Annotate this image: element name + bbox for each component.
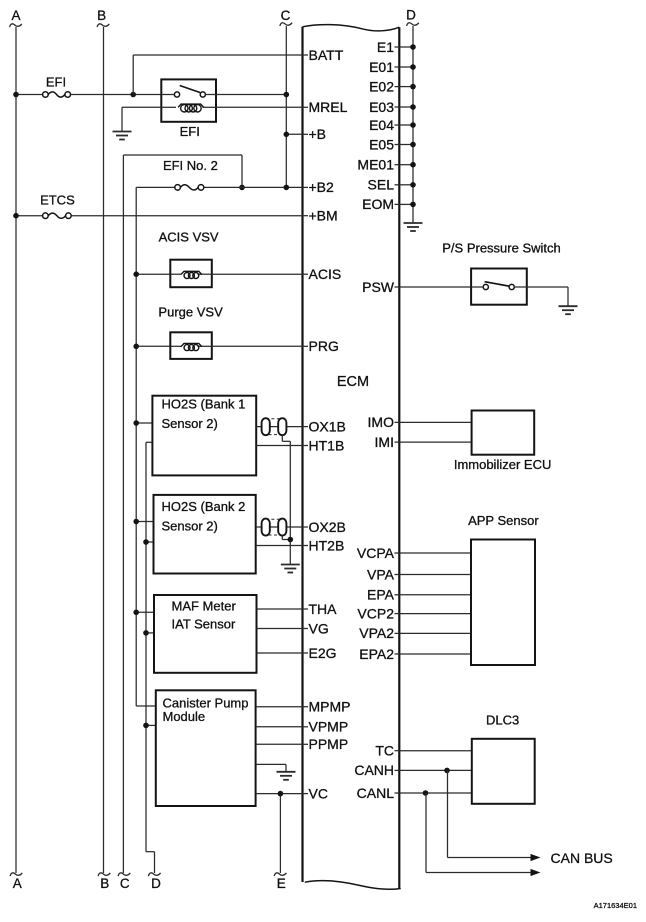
svg-text:+BM: +BM <box>309 208 338 224</box>
ECM pin +BM <box>303 208 338 224</box>
ECM pin E04 <box>369 117 399 133</box>
svg-text:ME01: ME01 <box>357 157 394 173</box>
wire VPA2 to APP sensor <box>399 632 471 634</box>
wire PPMP <box>256 743 303 745</box>
ECM pin E01 <box>369 59 399 75</box>
EFI relay label <box>180 124 200 139</box>
svg-text:ACIS VSV: ACIS VSV <box>159 230 219 245</box>
solenoid valve Purge VSV <box>170 332 212 359</box>
ECM pin VPMP <box>303 719 349 735</box>
relay EFI <box>161 79 216 121</box>
ECM pin OX1B <box>303 418 346 434</box>
ECM pin VC <box>303 785 328 801</box>
wire ETCS fuse to +BM <box>71 215 302 217</box>
svg-text:DLC3: DLC3 <box>486 713 519 728</box>
svg-text:EPA2: EPA2 <box>359 646 394 662</box>
svg-text:VPA: VPA <box>367 566 395 582</box>
svg-text:VPA2: VPA2 <box>359 625 394 641</box>
node C top label <box>281 8 291 23</box>
wire E03 to node D <box>399 104 416 110</box>
wire shield drain bank1 <box>282 435 290 564</box>
ECM pin CANL <box>357 785 400 801</box>
svg-text:HT1B: HT1B <box>309 437 345 453</box>
node B vertical line <box>97 24 110 876</box>
ECM pin VPA <box>367 566 399 582</box>
svg-text:A171634E01: A171634E01 <box>594 901 637 910</box>
wire VG <box>257 628 303 630</box>
wire OX2B <box>256 526 303 528</box>
svg-text:D: D <box>406 8 416 23</box>
wire CANL branch to CAN bus <box>426 793 541 876</box>
EFI fuse label <box>46 74 66 89</box>
wire battery feed on node A to EFI fuse <box>13 92 42 98</box>
ECM pin VCPA <box>357 545 399 561</box>
wire relay coil to ground <box>122 107 161 131</box>
svg-text:E01: E01 <box>369 59 394 75</box>
wire node C to +B <box>284 132 303 138</box>
svg-text:THA: THA <box>309 601 338 617</box>
wire EPA to APP sensor <box>399 594 471 596</box>
svg-text:HT2B: HT2B <box>309 537 345 553</box>
ground at pressure switch <box>559 306 578 314</box>
wire EFI fuse to EFI relay <box>71 92 162 98</box>
svg-text:IAT Sensor: IAT Sensor <box>172 617 236 632</box>
wire IMI <box>399 441 471 443</box>
ECM pin E05 <box>369 136 399 152</box>
ECM pin VPA2 <box>359 625 399 641</box>
ground at canister pump module <box>277 772 296 780</box>
svg-text:IMI: IMI <box>375 434 394 450</box>
supply rail 3 vertical <box>135 187 137 706</box>
svg-text:CANL: CANL <box>357 785 395 801</box>
node A bottom label <box>13 876 22 891</box>
svg-text:BATT: BATT <box>309 47 344 63</box>
ECM pin BATT <box>303 47 344 63</box>
ECM connector box U1 <box>303 25 401 890</box>
svg-text:APP Sensor: APP Sensor <box>468 513 539 528</box>
ECM pin MREL <box>303 99 348 115</box>
wire CANL to DLC3 <box>399 790 472 796</box>
wire rail3 to EFI No.2 fuse <box>136 186 175 188</box>
svg-text:VCP2: VCP2 <box>357 605 394 621</box>
svg-text:EFI: EFI <box>46 74 66 89</box>
shielded connector pair OX2B <box>262 519 287 536</box>
svg-text:PPMP: PPMP <box>309 736 349 752</box>
wire HT1B <box>256 445 302 447</box>
wire VCP2 to APP sensor <box>399 613 471 615</box>
wire CANH branch to CAN bus <box>448 770 541 861</box>
ECM pin HT1B <box>303 437 345 453</box>
wire EOM to node D <box>399 202 416 208</box>
ECM pin MPMP <box>303 699 351 715</box>
ECM pin ACIS <box>303 266 342 282</box>
wire OX1B <box>256 426 302 428</box>
ECM pin PPMP <box>303 736 349 752</box>
node E bottom label <box>277 876 286 891</box>
wire rail3 to ACIS VSV <box>133 271 170 277</box>
node C bottom rail <box>118 155 130 876</box>
svg-text:EFI No. 2: EFI No. 2 <box>163 158 218 173</box>
wire VPA to APP sensor <box>399 574 471 576</box>
ground at shield drain <box>281 565 300 573</box>
CAN BUS label <box>551 850 613 866</box>
wire E01 to node D <box>399 64 416 70</box>
wire rail3 to canister pump module <box>136 705 156 707</box>
svg-text:C: C <box>281 8 291 23</box>
wire THA <box>257 608 303 610</box>
wire E1 to node D <box>399 44 416 50</box>
ECM pin ME01 <box>357 157 399 173</box>
sensor HO2S (Bank 1 Sensor 2) <box>152 396 256 476</box>
fuse ETCS <box>43 213 72 219</box>
svg-text:TC: TC <box>375 743 394 759</box>
svg-text:ETCS: ETCS <box>40 192 75 207</box>
svg-text:E05: E05 <box>369 136 394 152</box>
Purge VSV label <box>158 305 223 320</box>
svg-text:EFI: EFI <box>180 124 200 139</box>
wire Purge VSV to PRG <box>212 345 303 347</box>
wire HT2B <box>256 545 303 547</box>
node A vertical line <box>10 24 23 876</box>
svg-text:E1: E1 <box>377 39 394 55</box>
wire SEL to node D <box>399 182 416 188</box>
connector DLC3 <box>472 739 535 804</box>
node E drop wire from VC <box>274 794 286 877</box>
svg-text:D: D <box>151 876 161 891</box>
ECM pin E02 <box>369 78 399 94</box>
svg-text:IMO: IMO <box>368 414 395 430</box>
document number <box>594 901 637 910</box>
wire VPMP <box>256 726 303 728</box>
ECM pin +B <box>303 126 327 142</box>
svg-text:VG: VG <box>309 620 329 636</box>
svg-text:P/S Pressure Switch: P/S Pressure Switch <box>442 240 561 255</box>
ECM pin E03 <box>369 99 399 115</box>
svg-text:E03: E03 <box>369 99 394 115</box>
wire E02 to node D <box>399 84 416 90</box>
svg-text:E02: E02 <box>369 78 394 94</box>
sensor HO2S (Bank 2 Sensor 2) <box>154 495 256 574</box>
wire node A to ETCS fuse <box>13 213 42 219</box>
ECM pin IMI <box>375 434 400 450</box>
node D top vertical line <box>407 23 419 223</box>
fuse EFI No. 2 <box>175 185 204 191</box>
ECM pin EPA <box>367 587 399 603</box>
ECM pin SEL <box>368 177 400 193</box>
svg-text:Immobilizer ECU: Immobilizer ECU <box>454 457 552 472</box>
wire pressure switch to ground <box>527 287 568 306</box>
wire E05 to node D <box>399 142 416 148</box>
svg-text:MPMP: MPMP <box>309 699 351 715</box>
svg-text:E04: E04 <box>369 117 394 133</box>
wire rail4 to canister pump module <box>143 723 156 729</box>
wire E2G <box>257 652 303 654</box>
svg-text:CANH: CANH <box>354 762 394 778</box>
node D bottom rail (supply rail 4) <box>146 442 161 876</box>
svg-text:MAF Meter: MAF Meter <box>172 599 237 614</box>
svg-text:OX2B: OX2B <box>309 519 346 535</box>
node D top label <box>406 8 416 23</box>
wire IMO <box>399 421 471 423</box>
wire BATT riser <box>133 55 302 95</box>
svg-text:VCPA: VCPA <box>357 545 395 561</box>
wire rail4 to HO2S bank2 heater <box>143 539 153 545</box>
wire PSW to pressure switch <box>399 286 471 288</box>
node B bottom label <box>100 876 109 891</box>
ECM pin THA <box>303 601 338 617</box>
shielded connector pair OX1B <box>262 418 287 435</box>
fuse EFI <box>43 92 71 98</box>
svg-text:Module: Module <box>163 709 206 724</box>
wire shield drain bank2 <box>282 536 293 543</box>
svg-text:MREL: MREL <box>309 99 348 115</box>
svg-text:ACIS: ACIS <box>309 266 342 282</box>
ground at node D line <box>404 223 423 231</box>
svg-text:ECM: ECM <box>337 374 369 390</box>
ECM pin PRG <box>303 338 339 354</box>
svg-text:PSW: PSW <box>362 279 395 295</box>
svg-text:A: A <box>11 8 20 23</box>
DLC3 label <box>486 713 519 728</box>
ECM pin VCP2 <box>357 605 399 621</box>
wire MPMP <box>256 706 303 708</box>
ECM pin EPA2 <box>359 646 399 662</box>
wire rail3 to Purge VSV <box>133 344 170 350</box>
wire canister ground lead <box>256 764 286 771</box>
svg-text:A: A <box>13 876 22 891</box>
sensor MAF Meter IAT Sensor <box>154 595 257 673</box>
svg-text:Sensor 2): Sensor 2) <box>162 416 218 431</box>
svg-text:HO2S (Bank 1: HO2S (Bank 1 <box>162 397 246 412</box>
node B top label <box>97 8 106 23</box>
module Canister Pump Module <box>156 690 256 806</box>
svg-text:C: C <box>120 876 130 891</box>
svg-text:B: B <box>100 876 109 891</box>
ECM label <box>337 374 369 390</box>
svg-text:B: B <box>97 8 106 23</box>
wire rail4 to MAF meter <box>143 630 154 636</box>
Immobilizer ECU label <box>454 457 552 472</box>
node D bottom label <box>151 876 161 891</box>
APP Sensor label <box>468 513 539 528</box>
svg-text:+B: +B <box>309 126 327 142</box>
ground at EFI relay <box>113 132 132 140</box>
ECM pin IMO <box>368 414 400 430</box>
ECM pin PSW <box>362 279 399 295</box>
svg-text:PRG: PRG <box>309 338 339 354</box>
ECM pin EOM <box>362 196 399 212</box>
wire VC <box>256 791 303 797</box>
node C top vertical line <box>280 23 292 188</box>
wire rail3 to HO2S bank1 <box>133 420 152 426</box>
svg-text:CAN BUS: CAN BUS <box>551 850 613 866</box>
svg-text:VPMP: VPMP <box>309 719 349 735</box>
node A top label <box>11 8 20 23</box>
wire EFI No.2 fuse to +B2 <box>204 185 303 191</box>
ECM pin OX2B <box>303 519 346 535</box>
ECM pin VG <box>303 620 329 636</box>
svg-text:Purge VSV: Purge VSV <box>158 305 223 320</box>
wire TC to DLC3 <box>399 750 472 752</box>
wire E04 to node D <box>399 122 416 128</box>
svg-text:Sensor 2): Sensor 2) <box>162 519 218 534</box>
svg-text:E: E <box>277 876 286 891</box>
ECM pin E1 <box>377 39 399 55</box>
EFI No. 2 label <box>163 158 218 173</box>
ACIS VSV label <box>159 230 219 245</box>
wire node C rail upper run <box>123 155 244 190</box>
svg-text:E2G: E2G <box>309 645 337 661</box>
ECM pin TC <box>375 743 399 759</box>
sensor APP Sensor <box>471 540 535 666</box>
ECM pin CANH <box>354 762 399 778</box>
wire relay output to node C <box>216 92 289 98</box>
ETCS fuse label <box>40 192 75 207</box>
ECM pin HT2B <box>303 537 345 553</box>
ECM pin E2G <box>303 645 337 661</box>
wire relay coil to MREL <box>216 106 303 108</box>
switch P/S Pressure Switch <box>471 269 527 305</box>
svg-text:HO2S (Bank 2: HO2S (Bank 2 <box>162 499 246 514</box>
wire VCPA to APP sensor <box>399 552 471 554</box>
module Immobilizer ECU <box>472 411 535 455</box>
wire ME01 to node D <box>399 162 416 168</box>
wire ACIS VSV to ACIS <box>212 273 303 275</box>
wire EPA2 to APP sensor <box>399 653 471 655</box>
wire rail3 to MAF meter <box>133 610 154 616</box>
solenoid valve ACIS VSV <box>170 260 212 288</box>
svg-text:SEL: SEL <box>368 177 395 193</box>
wire rail3 to HO2S bank2 <box>133 519 153 525</box>
wire HO2S bank1 heater feed to rail4 <box>146 441 152 443</box>
svg-text:EPA: EPA <box>367 587 395 603</box>
svg-text:EOM: EOM <box>362 196 394 212</box>
wire CANH to DLC3 <box>399 768 472 774</box>
svg-text:+B2: +B2 <box>309 179 335 195</box>
P/S Pressure Switch label <box>442 240 561 255</box>
svg-text:VC: VC <box>309 785 328 801</box>
node C bottom label <box>120 876 130 891</box>
ECM pin +B2 <box>303 179 335 195</box>
svg-text:OX1B: OX1B <box>309 418 346 434</box>
